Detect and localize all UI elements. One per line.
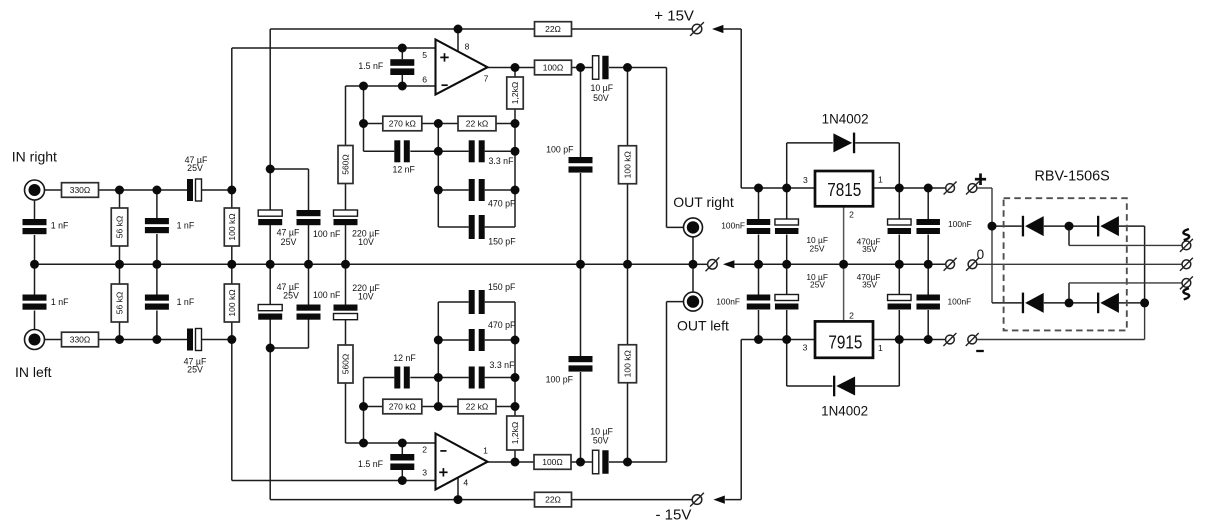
svg-text:1 nF: 1 nF <box>177 297 195 307</box>
svg-text:3.3 nF: 3.3 nF <box>489 156 515 166</box>
svg-text:25V: 25V <box>810 280 825 290</box>
svg-text:1 nF: 1 nF <box>51 220 69 230</box>
svg-text:56 kΩ: 56 kΩ <box>115 216 125 238</box>
svg-text:10V: 10V <box>358 292 374 302</box>
svg-text:OUT right: OUT right <box>673 194 734 210</box>
svg-text:+ 15V: + 15V <box>654 8 694 25</box>
svg-text:100nF: 100nF <box>948 297 972 307</box>
svg-text:3.3 nF: 3.3 nF <box>490 360 516 370</box>
svg-text:1: 1 <box>483 446 488 456</box>
svg-text:1.5 nF: 1.5 nF <box>358 61 384 71</box>
svg-text:22Ω: 22Ω <box>545 495 561 505</box>
svg-text:10V: 10V <box>358 237 374 247</box>
svg-text:100Ω: 100Ω <box>542 457 563 467</box>
svg-text:56 kΩ: 56 kΩ <box>115 292 125 314</box>
svg-text:50V: 50V <box>593 436 609 446</box>
svg-text:3: 3 <box>803 175 808 185</box>
svg-text:470 pF: 470 pF <box>488 199 516 209</box>
svg-text:100 kΩ: 100 kΩ <box>227 289 237 316</box>
svg-text:100 pF: 100 pF <box>546 145 574 155</box>
svg-text:25V: 25V <box>810 243 825 253</box>
svg-text:150 pF: 150 pF <box>488 237 516 247</box>
svg-text:10 µF: 10 µF <box>590 83 613 93</box>
svg-text:100nF: 100nF <box>948 219 972 229</box>
svg-text:1 nF: 1 nF <box>51 297 69 307</box>
svg-text:- 15V: - 15V <box>656 507 692 524</box>
svg-text:0: 0 <box>977 247 985 262</box>
svg-text:12 nF: 12 nF <box>392 164 415 174</box>
svg-text:6: 6 <box>422 75 427 85</box>
svg-text:330Ω: 330Ω <box>70 335 91 345</box>
svg-text:270 kΩ: 270 kΩ <box>389 402 416 412</box>
svg-text:1: 1 <box>878 175 883 185</box>
svg-text:100 nF: 100 nF <box>313 290 341 300</box>
svg-text:150 pF: 150 pF <box>488 282 516 292</box>
svg-text:100 nF: 100 nF <box>313 229 341 239</box>
svg-text:IN left: IN left <box>15 364 52 380</box>
svg-text:4: 4 <box>463 478 468 488</box>
svg-text:3: 3 <box>803 343 808 353</box>
svg-text:330Ω: 330Ω <box>70 185 91 195</box>
svg-text:100 kΩ: 100 kΩ <box>227 213 237 240</box>
svg-text:50V: 50V <box>593 93 609 103</box>
svg-text:100nF: 100nF <box>716 297 740 307</box>
svg-text:2: 2 <box>422 445 427 455</box>
svg-text:1,2kΩ: 1,2kΩ <box>510 422 520 444</box>
svg-text:35V: 35V <box>862 244 877 254</box>
svg-text:1 nF: 1 nF <box>177 221 195 231</box>
svg-text:7: 7 <box>484 73 489 83</box>
svg-text:1: 1 <box>878 343 883 353</box>
svg-text:3: 3 <box>422 468 427 478</box>
svg-text:25V: 25V <box>187 163 203 173</box>
svg-text:22 kΩ: 22 kΩ <box>466 402 488 412</box>
svg-text:2: 2 <box>849 310 854 320</box>
svg-text:22Ω: 22Ω <box>545 24 561 34</box>
svg-text:RBV-1506S: RBV-1506S <box>1035 168 1110 184</box>
svg-text:560Ω: 560Ω <box>341 354 351 375</box>
svg-text:1,2kΩ: 1,2kΩ <box>510 82 520 104</box>
svg-text:560Ω: 560Ω <box>341 154 351 175</box>
svg-text:1N4002: 1N4002 <box>822 111 869 126</box>
svg-text:470 pF: 470 pF <box>488 320 516 330</box>
svg-text:25V: 25V <box>281 237 297 247</box>
svg-text:7915: 7915 <box>828 332 862 353</box>
svg-text:8: 8 <box>465 42 470 52</box>
svg-text:2: 2 <box>849 210 854 220</box>
svg-text:25V: 25V <box>283 291 299 301</box>
svg-text:7815: 7815 <box>827 179 861 200</box>
svg-text:IN right: IN right <box>12 148 57 164</box>
svg-text:100 pF: 100 pF <box>546 375 574 385</box>
svg-text:12 nF: 12 nF <box>393 353 416 363</box>
svg-text:100Ω: 100Ω <box>543 63 564 73</box>
svg-text:5: 5 <box>422 50 427 60</box>
svg-text:100 kΩ: 100 kΩ <box>623 350 633 377</box>
svg-text:47 µF: 47 µF <box>277 228 300 238</box>
svg-text:OUT left: OUT left <box>677 317 729 333</box>
svg-text:22 kΩ: 22 kΩ <box>466 119 488 129</box>
svg-text:35V: 35V <box>862 279 877 289</box>
svg-text:270 kΩ: 270 kΩ <box>389 119 416 129</box>
svg-text:100nF: 100nF <box>721 221 745 231</box>
svg-text:1N4002: 1N4002 <box>821 403 868 418</box>
svg-text:100 kΩ: 100 kΩ <box>623 151 633 178</box>
svg-text:1.5 nF: 1.5 nF <box>358 459 384 469</box>
svg-text:25V: 25V <box>187 365 203 375</box>
